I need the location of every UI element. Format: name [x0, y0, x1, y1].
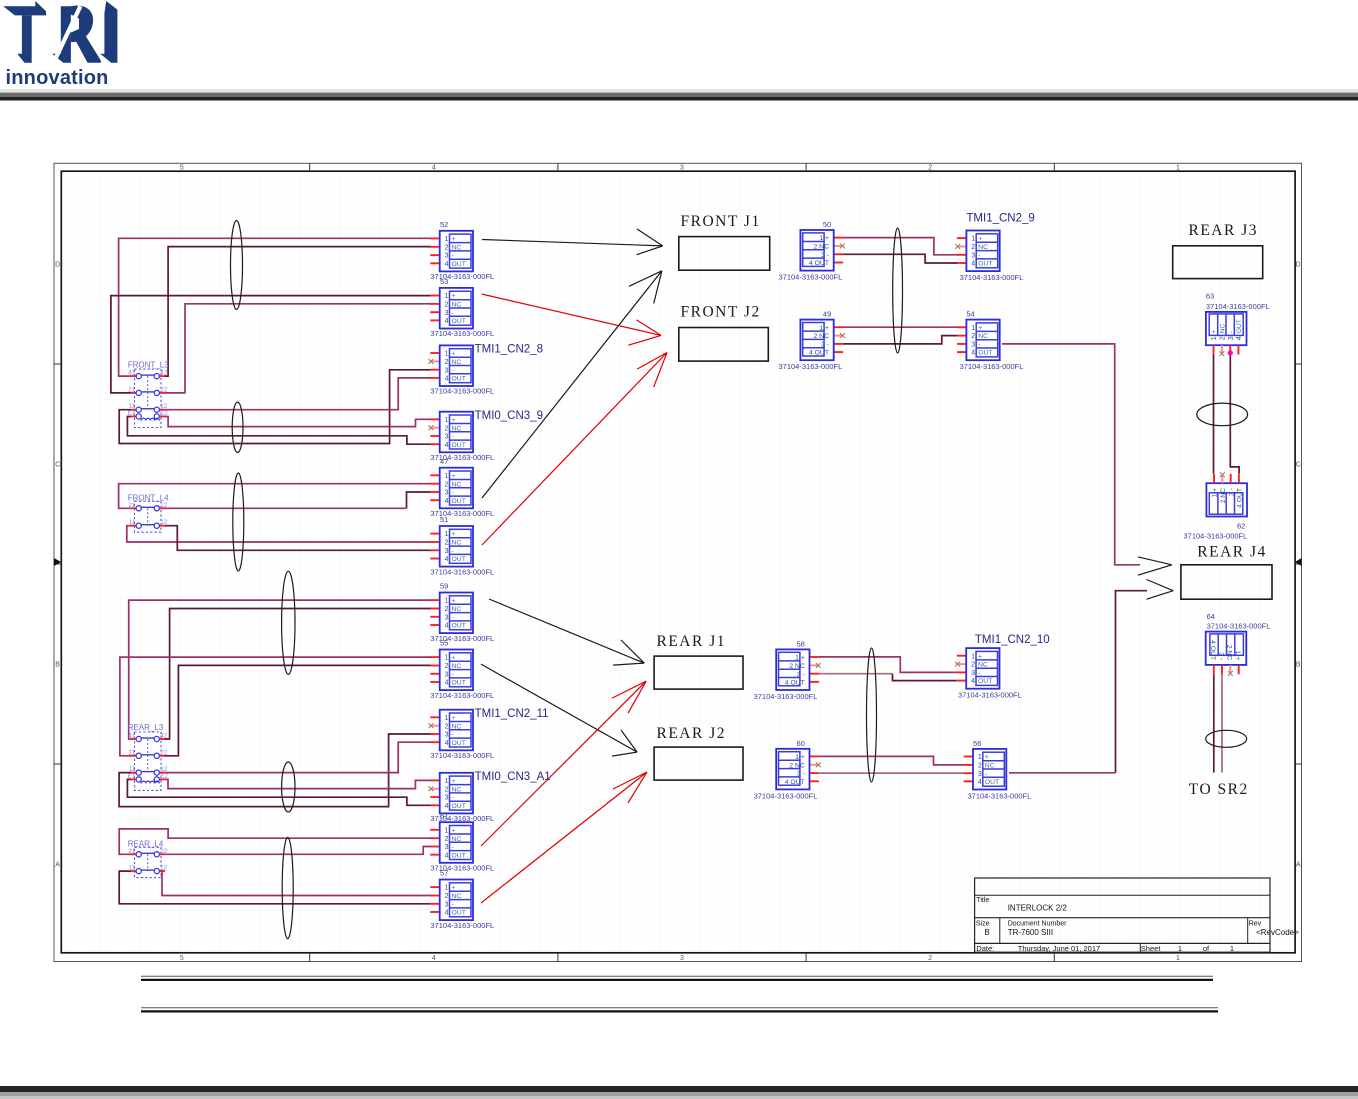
svg-text:+: + [452, 236, 456, 243]
svg-text:NC: NC [452, 723, 462, 730]
svg-text:-: - [452, 253, 454, 260]
svg-text:1: 1 [1176, 955, 1180, 962]
svg-text:2: 2 [928, 955, 932, 962]
svg-text:NC: NC [452, 359, 462, 366]
svg-text:50: 50 [823, 220, 831, 229]
svg-text:OUT: OUT [452, 803, 466, 810]
svg-text:1: 1 [445, 351, 449, 358]
svg-text:-: - [452, 367, 454, 374]
svg-text:OUT: OUT [452, 261, 466, 268]
svg-text:OUT: OUT [452, 740, 466, 747]
svg-text:Document Number: Document Number [1008, 921, 1067, 928]
svg-text:59: 59 [440, 582, 448, 591]
svg-text:OUT: OUT [978, 678, 992, 685]
svg-text:3 -: 3 - [1217, 652, 1224, 660]
svg-text:A: A [55, 862, 60, 869]
svg-text:37104-3163-000FL: 37104-3163-000FL [754, 791, 818, 800]
svg-text:21: 21 [128, 749, 136, 756]
svg-text:1: 1 [445, 885, 449, 892]
svg-text:-: - [452, 614, 454, 621]
svg-text:3 -: 3 - [797, 771, 805, 778]
svg-text:1: 1 [445, 417, 449, 424]
svg-text:OUT: OUT [985, 779, 999, 786]
svg-text:NC: NC [985, 763, 995, 770]
svg-text:5: 5 [180, 955, 184, 962]
svg-text:1: 1 [445, 778, 449, 785]
svg-text:NC: NC [452, 836, 462, 843]
svg-text:OUT: OUT [978, 261, 992, 268]
svg-text:OUT: OUT [978, 350, 992, 357]
svg-text:56: 56 [973, 739, 981, 748]
svg-text:1: 1 [445, 531, 449, 538]
svg-text:-: - [452, 490, 454, 497]
svg-text:2: 2 [445, 540, 449, 547]
svg-text:1: 1 [445, 827, 449, 834]
svg-text:+: + [978, 325, 982, 332]
svg-text:NC: NC [1220, 323, 1227, 333]
svg-text:TMI0_CN3_9: TMI0_CN3_9 [475, 410, 543, 422]
svg-text:TO SR2: TO SR2 [1189, 781, 1249, 798]
svg-text:37104-3163-000FL: 37104-3163-000FL [754, 692, 818, 701]
svg-text:22: 22 [160, 502, 168, 509]
svg-text:+: + [452, 417, 456, 424]
svg-text:4 OUT: 4 OUT [1209, 640, 1216, 660]
svg-text:-: - [452, 434, 454, 441]
svg-text:D: D [55, 262, 60, 269]
svg-text:1 +: 1 + [1234, 651, 1241, 661]
svg-text:55: 55 [440, 639, 448, 648]
svg-text:REAR_L4: REAR_L4 [128, 839, 164, 848]
svg-text:3: 3 [445, 844, 449, 851]
svg-text:1: 1 [445, 655, 449, 662]
svg-text:1 +: 1 + [1212, 488, 1219, 498]
svg-text:64: 64 [1207, 612, 1215, 621]
svg-text:21: 21 [128, 386, 136, 393]
svg-text:37104-3163-000FL: 37104-3163-000FL [430, 921, 494, 930]
svg-text:37104-3163-000FL: 37104-3163-000FL [960, 362, 1024, 371]
svg-text:2 NC: 2 NC [1226, 645, 1233, 661]
svg-text:1: 1 [445, 293, 449, 300]
svg-text:Thursday, June 01, 2017: Thursday, June 01, 2017 [1018, 944, 1100, 953]
svg-text:TMI1_CN2_10: TMI1_CN2_10 [975, 634, 1050, 646]
svg-text:1: 1 [971, 236, 975, 243]
svg-text:37104-3163-000FL: 37104-3163-000FL [430, 567, 494, 576]
svg-text:FRONT J1: FRONT J1 [681, 213, 761, 230]
svg-text:37104-3163-000FL: 37104-3163-000FL [430, 691, 494, 700]
svg-text:2: 2 [971, 333, 975, 340]
svg-text:4 OUT: 4 OUT [785, 680, 805, 687]
svg-text:4: 4 [445, 910, 449, 917]
svg-text:4: 4 [445, 803, 449, 810]
svg-text:37104-3163-000FL: 37104-3163-000FL [1207, 621, 1271, 630]
svg-text:E1: E1 [128, 773, 136, 780]
svg-text:3: 3 [445, 671, 449, 678]
svg-text:12: 12 [160, 865, 168, 872]
svg-text:2: 2 [445, 302, 449, 309]
svg-text:12: 12 [160, 519, 168, 526]
svg-text:51: 51 [440, 515, 448, 524]
svg-text:2: 2 [445, 663, 449, 670]
svg-text:37104-3163-000FL: 37104-3163-000FL [779, 273, 843, 282]
svg-text:3: 3 [445, 310, 449, 317]
svg-text:1: 1 [971, 325, 975, 332]
svg-text:NC: NC [452, 481, 462, 488]
svg-text:+: + [452, 351, 456, 358]
svg-text:11: 11 [129, 865, 136, 872]
svg-text:4: 4 [445, 261, 449, 268]
svg-text:NC: NC [978, 244, 988, 251]
svg-text:D: D [1296, 262, 1301, 269]
svg-text:4 OUT: 4 OUT [1237, 488, 1244, 508]
svg-text:-: - [1228, 331, 1235, 333]
svg-text:2: 2 [445, 425, 449, 432]
svg-text:-: - [452, 548, 454, 555]
svg-text:2: 2 [978, 763, 982, 770]
svg-text:OUT: OUT [452, 623, 466, 630]
svg-text:3 -: 3 - [1228, 488, 1235, 496]
svg-text:2 NC: 2 NC [814, 333, 830, 340]
svg-text:innovation: innovation [6, 67, 109, 89]
svg-text:3: 3 [680, 165, 684, 172]
svg-text:61: 61 [440, 811, 448, 820]
svg-text:-: - [985, 771, 987, 778]
svg-text:4: 4 [445, 852, 449, 859]
svg-text:FRONT J2: FRONT J2 [681, 304, 761, 321]
svg-text:3: 3 [445, 490, 449, 497]
svg-text:53: 53 [440, 277, 448, 286]
svg-text:4: 4 [1236, 336, 1243, 340]
svg-text:3: 3 [445, 367, 449, 374]
svg-text:3: 3 [445, 901, 449, 908]
svg-text:4: 4 [445, 556, 449, 563]
svg-text:4: 4 [432, 165, 436, 172]
svg-text:62: 62 [1237, 522, 1245, 531]
svg-text:NC: NC [452, 606, 462, 613]
svg-text:2: 2 [445, 723, 449, 730]
svg-text:41: 41 [128, 733, 136, 740]
svg-text:1 +: 1 + [819, 325, 829, 332]
svg-text:57: 57 [440, 869, 448, 878]
svg-text:NC: NC [978, 662, 988, 669]
svg-text:NC: NC [978, 333, 988, 340]
svg-text:3: 3 [971, 252, 975, 259]
svg-text:49: 49 [823, 310, 831, 319]
svg-text:Title: Title [976, 897, 989, 904]
svg-text:+: + [1211, 329, 1218, 333]
svg-text:4: 4 [971, 350, 975, 357]
svg-text:1: 1 [1211, 336, 1218, 340]
svg-text:4: 4 [978, 779, 982, 786]
svg-text:1: 1 [1176, 165, 1180, 172]
svg-text:NC: NC [452, 425, 462, 432]
svg-text:2: 2 [971, 244, 975, 251]
svg-text:-: - [452, 795, 454, 802]
svg-text:2 NC: 2 NC [789, 663, 805, 670]
svg-text:3: 3 [445, 614, 449, 621]
svg-text:OUT: OUT [452, 556, 466, 563]
svg-text:OUT: OUT [452, 442, 466, 449]
svg-text:NC: NC [452, 663, 462, 670]
svg-text:3: 3 [445, 434, 449, 441]
svg-text:22: 22 [160, 749, 168, 756]
svg-text:NC: NC [452, 893, 462, 900]
svg-text:3: 3 [445, 795, 449, 802]
svg-text:54: 54 [966, 310, 974, 319]
svg-text:+: + [452, 293, 456, 300]
svg-text:TR-7600 SIII: TR-7600 SIII [1008, 928, 1053, 937]
svg-text:2: 2 [445, 786, 449, 793]
svg-text:Rev: Rev [1249, 921, 1262, 928]
svg-text:1 +: 1 + [795, 655, 805, 662]
svg-text:37104-3163-000FL: 37104-3163-000FL [968, 791, 1032, 800]
svg-text:-: - [978, 670, 980, 677]
svg-text:2: 2 [445, 836, 449, 843]
svg-text:+: + [978, 236, 982, 243]
svg-text:+: + [452, 655, 456, 662]
svg-text:3: 3 [971, 670, 975, 677]
svg-text:NC: NC [452, 302, 462, 309]
svg-text:1: 1 [445, 236, 449, 243]
svg-text:3 -: 3 - [821, 342, 829, 349]
svg-text:3: 3 [445, 732, 449, 739]
svg-text:OUT: OUT [452, 376, 466, 383]
svg-text:+: + [985, 754, 989, 761]
svg-text:37104-3163-000FL: 37104-3163-000FL [1184, 532, 1248, 541]
svg-text:4: 4 [445, 680, 449, 687]
svg-text:E2: E2 [160, 410, 168, 417]
svg-text:B: B [55, 662, 60, 669]
svg-text:OUT: OUT [452, 498, 466, 505]
svg-text:REAR J3: REAR J3 [1189, 222, 1259, 239]
svg-text:37104-3163-000FL: 37104-3163-000FL [430, 329, 494, 338]
svg-text:B: B [1296, 662, 1301, 669]
svg-text:+: + [452, 531, 456, 538]
svg-text:2: 2 [971, 662, 975, 669]
svg-text:2: 2 [445, 606, 449, 613]
svg-text:NC: NC [452, 540, 462, 547]
svg-text:1: 1 [971, 653, 975, 660]
svg-text:58: 58 [797, 639, 805, 648]
svg-text:2: 2 [445, 359, 449, 366]
svg-text:3: 3 [445, 253, 449, 260]
svg-text:3: 3 [445, 548, 449, 555]
svg-text:4: 4 [445, 740, 449, 747]
svg-text:3: 3 [971, 342, 975, 349]
svg-text:60: 60 [797, 739, 805, 748]
svg-text:2: 2 [1220, 336, 1227, 340]
svg-text:-: - [452, 671, 454, 678]
svg-text:2 NC: 2 NC [1220, 488, 1227, 504]
svg-text:+: + [452, 778, 456, 785]
svg-text:1 +: 1 + [795, 754, 805, 761]
svg-text:2: 2 [445, 893, 449, 900]
svg-text:<RevCode>: <RevCode> [1256, 928, 1299, 937]
svg-text:3 -: 3 - [821, 252, 829, 259]
svg-text:2: 2 [445, 244, 449, 251]
svg-text:11: 11 [129, 519, 136, 526]
svg-text:REAR J4: REAR J4 [1197, 543, 1267, 560]
svg-text:OUT: OUT [452, 318, 466, 325]
svg-text:37104-3163-000FL: 37104-3163-000FL [960, 273, 1024, 282]
svg-text:5: 5 [180, 165, 184, 172]
svg-text:1: 1 [445, 473, 449, 480]
svg-text:37104-3163-000FL: 37104-3163-000FL [430, 387, 494, 396]
svg-text:47: 47 [440, 457, 448, 466]
svg-text:REAR J1: REAR J1 [657, 633, 727, 650]
svg-text:1: 1 [978, 754, 982, 761]
svg-text:3: 3 [680, 955, 684, 962]
svg-text:TMI1_CN2_9: TMI1_CN2_9 [966, 213, 1034, 225]
svg-text:TMI1_CN2_8: TMI1_CN2_8 [475, 344, 543, 356]
svg-text:41: 41 [128, 370, 136, 377]
svg-text:22: 22 [160, 848, 168, 855]
svg-text:+: + [452, 827, 456, 834]
svg-text:2: 2 [445, 481, 449, 488]
svg-text:37104-3163-000FL: 37104-3163-000FL [430, 751, 494, 760]
svg-text:Date:: Date: [976, 944, 994, 953]
svg-text:of: of [1203, 944, 1210, 953]
svg-text:A: A [1296, 862, 1301, 869]
svg-text:3: 3 [978, 771, 982, 778]
svg-text:REAR J2: REAR J2 [657, 725, 727, 742]
svg-text:1 +: 1 + [819, 235, 829, 242]
svg-text:+: + [452, 885, 456, 892]
svg-text:FRONT_L3: FRONT_L3 [128, 360, 169, 369]
svg-text:FRONT_L4: FRONT_L4 [128, 493, 169, 502]
svg-text:E1: E1 [128, 410, 136, 417]
svg-text:1: 1 [445, 715, 449, 722]
svg-text:37104-3163-000FL: 37104-3163-000FL [779, 362, 843, 371]
svg-text:4: 4 [445, 376, 449, 383]
svg-text:TMI0_CN3_A1: TMI0_CN3_A1 [475, 771, 551, 783]
svg-text:4: 4 [971, 261, 975, 268]
svg-text:-: - [452, 901, 454, 908]
svg-text:INTERLOCK 2/2: INTERLOCK 2/2 [1008, 904, 1068, 913]
svg-text:22: 22 [160, 386, 168, 393]
svg-text:1: 1 [445, 598, 449, 605]
svg-text:4 OUT: 4 OUT [809, 350, 829, 357]
svg-text:-: - [978, 342, 980, 349]
svg-text:42: 42 [160, 733, 168, 740]
svg-text:4: 4 [445, 498, 449, 505]
svg-text:4: 4 [445, 442, 449, 449]
svg-text:2 NC: 2 NC [789, 762, 805, 769]
svg-text:4: 4 [432, 955, 436, 962]
svg-text:3 -: 3 - [797, 671, 805, 678]
svg-text:E2: E2 [160, 773, 168, 780]
svg-text:-: - [452, 310, 454, 317]
svg-text:REAR_L3: REAR_L3 [128, 723, 164, 732]
svg-text:1: 1 [1230, 944, 1234, 953]
svg-text:B: B [984, 928, 989, 937]
svg-text:NC: NC [452, 244, 462, 251]
svg-text:3: 3 [1228, 336, 1235, 340]
svg-text:4: 4 [445, 623, 449, 630]
svg-text:TMI1_CN2_11: TMI1_CN2_11 [475, 708, 549, 720]
svg-text:21: 21 [128, 502, 136, 509]
svg-text:OUT: OUT [452, 852, 466, 859]
svg-text:OUT: OUT [452, 680, 466, 687]
svg-text:NC: NC [452, 786, 462, 793]
svg-text:4: 4 [971, 678, 975, 685]
svg-text:+: + [452, 598, 456, 605]
svg-text:OUT: OUT [1236, 319, 1243, 333]
svg-text:63: 63 [1206, 291, 1214, 300]
svg-text:C: C [1296, 462, 1301, 469]
svg-text:-: - [452, 732, 454, 739]
svg-text:37104-3163-000FL: 37104-3163-000FL [958, 691, 1022, 700]
svg-text:52: 52 [440, 220, 448, 229]
svg-text:42: 42 [160, 370, 168, 377]
svg-text:+: + [978, 653, 982, 660]
svg-text:+: + [452, 473, 456, 480]
svg-text:1: 1 [1178, 944, 1182, 953]
svg-text:+: + [452, 715, 456, 722]
svg-text:C: C [55, 462, 60, 469]
svg-text:4 OUT: 4 OUT [785, 779, 805, 786]
svg-text:-: - [978, 252, 980, 259]
svg-text:-: - [452, 844, 454, 851]
svg-text:37104-3163-000FL: 37104-3163-000FL [1206, 302, 1270, 311]
svg-text:Size: Size [976, 921, 990, 928]
svg-text:2 NC: 2 NC [814, 244, 830, 251]
svg-text:Sheet: Sheet [1141, 944, 1162, 953]
svg-text:4 OUT: 4 OUT [809, 260, 829, 267]
svg-text:2: 2 [928, 165, 932, 172]
svg-text:4: 4 [445, 318, 449, 325]
svg-text:OUT: OUT [452, 910, 466, 917]
svg-text:21: 21 [128, 848, 136, 855]
